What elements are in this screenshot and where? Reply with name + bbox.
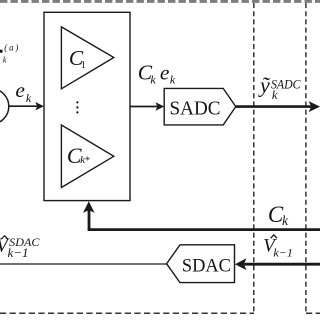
svg-text:SADC: SADC [170,98,221,120]
svg-text:k: k [26,91,32,105]
svg-text:e: e [160,61,170,85]
svg-text:k: k [282,213,289,228]
svg-text:ỹ: ỹ [258,73,271,98]
svg-text:k−1: k−1 [8,245,29,260]
svg-text:SDAC: SDAC [182,255,231,276]
svg-text:*: * [85,156,90,167]
svg-text:(a): (a) [4,43,20,53]
svg-text:k: k [272,88,278,102]
svg-text:e: e [15,78,25,102]
svg-text:k−1: k−1 [273,246,292,260]
svg-text:k: k [170,73,176,87]
svg-text:k: k [150,73,156,87]
svg-text:1: 1 [81,60,86,71]
svg-text:k: k [3,54,7,64]
